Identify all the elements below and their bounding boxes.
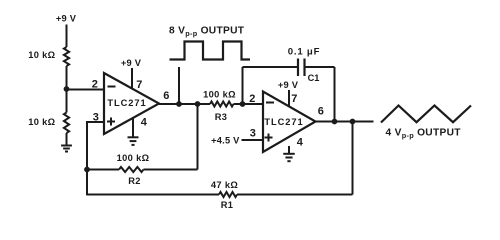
svg-text:6: 6: [163, 90, 169, 102]
svg-text:+9 V: +9 V: [278, 80, 299, 90]
svg-text:10 kΩ: 10 kΩ: [28, 117, 55, 127]
label R2: [128, 176, 141, 186]
pin 2 label U1: [92, 79, 98, 91]
U1 non-inverting input plus sign: [107, 118, 115, 126]
wire U1 pin 7 supply: [131, 68, 133, 89]
wire junction to R2: [87, 169, 119, 171]
resistor R1 47 k: [219, 192, 237, 197]
label 10 kΩ (upper): [28, 50, 55, 60]
ground (U1 pin 4): [128, 137, 139, 145]
label TLC271 (U2): [264, 117, 303, 127]
pin 3 label U2: [250, 128, 256, 140]
wire U2 pin 7 supply: [288, 90, 290, 107]
wire bottom left to R1: [87, 194, 219, 196]
node R1 feedback junction: [350, 119, 356, 125]
node C1 feedback junction: [332, 119, 338, 125]
label 47 kΩ: [211, 180, 238, 190]
wire R1 right leg: [352, 122, 354, 195]
wire U1 pin 4 to ground: [132, 117, 134, 137]
wire C1 left leg: [242, 67, 244, 104]
pin 2 label U2: [249, 93, 255, 105]
svg-text:8 Vp-p OUTPUT: 8 Vp-p OUTPUT: [169, 26, 245, 38]
svg-text:10 kΩ: 10 kΩ: [28, 50, 55, 60]
square-wave annotation (8 Vp-p): [170, 42, 251, 60]
op-amp U1 triangle: [104, 73, 159, 134]
resistor R2 100 k: [119, 167, 144, 172]
svg-text:+9 V: +9 V: [56, 14, 77, 24]
label R1: [221, 200, 234, 210]
label C1: [308, 73, 320, 83]
wire R2 right leg: [197, 104, 199, 170]
wire R1 to right leg: [237, 194, 353, 196]
svg-text:+9 V: +9 V: [121, 58, 142, 68]
node C1 / U2 pin2 junction: [240, 101, 246, 107]
svg-text:C1: C1: [308, 73, 320, 83]
wire divider to ground: [66, 133, 68, 145]
pin 4 label U2: [297, 137, 304, 149]
node R2 feedback junction: [195, 101, 201, 107]
svg-text:TLC271: TLC271: [107, 98, 146, 108]
ground (divider): [61, 146, 72, 152]
svg-text:2: 2: [92, 79, 98, 91]
label 10 kΩ (lower): [28, 117, 55, 127]
wire divider junction to U1 pin2: [67, 89, 105, 91]
node square-wave probe: [176, 101, 182, 107]
svg-text:3: 3: [250, 128, 256, 140]
pin 7 label U2: [291, 93, 297, 105]
label 8 Vp-p OUTPUT: [169, 26, 245, 38]
wire +4.5V to U2 pin 3: [242, 139, 264, 141]
svg-text:R1: R1: [221, 200, 234, 210]
label R3: [215, 112, 228, 122]
wire C1 left: [243, 66, 299, 68]
svg-text:TLC271: TLC271: [264, 117, 303, 127]
supply label +9 V (U2 pin 7): [278, 80, 299, 90]
svg-text:100 kΩ: 100 kΩ: [117, 153, 150, 163]
resistor 10 k lower (divider): [64, 113, 69, 134]
pin 3 label U1: [93, 112, 99, 124]
svg-text:2: 2: [249, 93, 255, 105]
resistor R3 100 k: [210, 102, 234, 107]
U1 inverting input minus sign: [108, 86, 116, 88]
svg-text:7: 7: [136, 79, 142, 91]
U2 inverting input minus sign: [266, 102, 274, 104]
wire R2 to right leg: [144, 169, 198, 171]
label 4 Vp-p OUTPUT: [386, 128, 462, 140]
wire U2 output: [316, 121, 374, 123]
svg-text:7: 7: [291, 93, 297, 105]
wire R3 to U2 pin 2: [234, 103, 264, 105]
node U1 pin3 / R2 / R1 junction: [84, 167, 90, 173]
supply label +9 V (divider): [56, 14, 77, 24]
svg-text:+4.5 V: +4.5 V: [211, 136, 240, 146]
wire C1 right: [305, 66, 335, 68]
svg-text:0.1 μF: 0.1 μF: [288, 47, 321, 58]
wire +9V rail to R upper: [66, 25, 68, 48]
wire U1 pin 3 to feedback node: [87, 122, 104, 195]
capacitor C1 plates: [298, 59, 305, 77]
label TLC271 (U1): [107, 98, 146, 108]
pin 6 label U1: [163, 90, 169, 102]
triangle-wave annotation (4 Vp-p): [381, 106, 471, 123]
resistor 10 k upper (divider): [64, 47, 69, 66]
node divider junction: [64, 86, 70, 92]
supply label +9 V (U1 pin 7): [121, 58, 142, 68]
wire divider middle: [66, 66, 68, 113]
label +4.5 V: [211, 136, 240, 146]
svg-text:4: 4: [141, 117, 148, 129]
label 100 kΩ (R3): [203, 90, 236, 100]
ground (U2 pin 4): [283, 154, 295, 161]
wire C1 right leg: [334, 67, 336, 122]
svg-text:R3: R3: [215, 112, 228, 122]
wire U1 output to R3: [159, 103, 210, 105]
svg-text:4 Vp-p OUTPUT: 4 Vp-p OUTPUT: [386, 128, 462, 140]
svg-text:4: 4: [297, 137, 304, 149]
wire U2 pin 4 to ground: [288, 146, 290, 154]
svg-text:47 kΩ: 47 kΩ: [211, 180, 238, 190]
pin 4 label U1: [141, 117, 148, 129]
wire probe to square-wave annotation: [178, 67, 180, 104]
label 0.1 µF: [288, 47, 321, 58]
svg-text:100 kΩ: 100 kΩ: [203, 90, 236, 100]
U2 non-inverting input plus sign: [265, 134, 273, 142]
op-amp U2 triangle: [263, 92, 316, 153]
svg-text:R2: R2: [128, 176, 141, 186]
pin 7 label U1: [136, 79, 142, 91]
pin 6 label U2: [318, 106, 324, 118]
svg-text:6: 6: [318, 106, 324, 118]
label 100 kΩ (R2): [117, 153, 150, 163]
